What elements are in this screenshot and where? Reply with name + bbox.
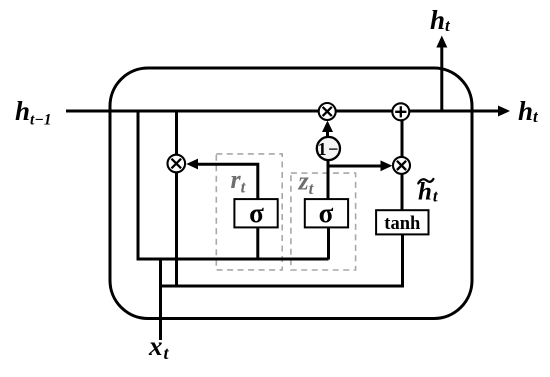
svg-text:tanh: tanh	[384, 214, 421, 234]
svg-text:ht−1: ht−1	[15, 96, 51, 129]
svg-text:rt: rt	[231, 165, 247, 197]
svg-text:ht: ht	[430, 5, 451, 35]
svg-text:σ: σ	[249, 198, 264, 228]
svg-text:xt: xt	[148, 331, 170, 363]
svg-text:σ: σ	[319, 198, 334, 228]
svg-text:ht: ht	[518, 96, 539, 126]
svg-text:1 −: 1 −	[318, 139, 339, 159]
svg-text:zt: zt	[298, 167, 315, 199]
